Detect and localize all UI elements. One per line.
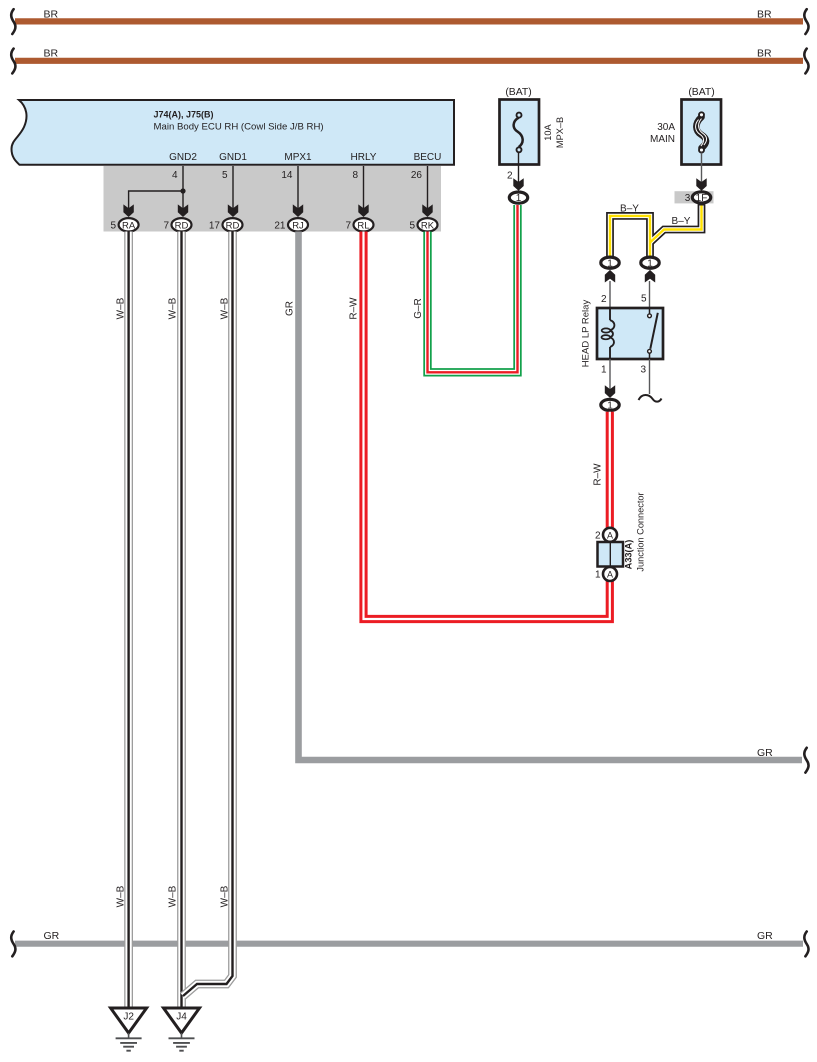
svg-text:10A: 10A xyxy=(543,123,553,140)
svg-text:HEAD LP Relay: HEAD LP Relay xyxy=(581,300,592,368)
svg-text:B–Y: B–Y xyxy=(620,203,639,214)
connector 1 (left, to relay pin 2) xyxy=(601,257,619,269)
svg-text:7: 7 xyxy=(163,220,169,231)
svg-text:MAIN: MAIN xyxy=(650,134,675,145)
svg-text:(BAT): (BAT) xyxy=(688,87,714,98)
svg-text:A33(A): A33(A) xyxy=(624,540,634,570)
wire branch to RA xyxy=(129,191,183,212)
svg-text:R–W: R–W xyxy=(349,297,360,320)
svg-text:GND1: GND1 xyxy=(219,152,247,163)
junction connector A33(A) xyxy=(595,492,646,581)
svg-text:A: A xyxy=(607,530,613,540)
connector 1 (below relay) xyxy=(601,399,619,411)
wire GR bottom (full width) xyxy=(11,930,808,956)
connector 1 (right, to relay pin 5) xyxy=(641,257,659,269)
svg-text:W–B: W–B xyxy=(168,885,179,907)
svg-text:Junction Connector: Junction Connector xyxy=(636,492,646,571)
connector RD pin 17 xyxy=(209,218,243,231)
svg-text:1: 1 xyxy=(595,570,601,581)
ground J4 xyxy=(164,1008,200,1051)
svg-text:R–W: R–W xyxy=(593,463,604,486)
svg-text:B–Y: B–Y xyxy=(672,216,691,227)
connector 1F xyxy=(692,192,710,204)
svg-text:MPX–B: MPX–B xyxy=(555,117,565,148)
svg-text:J74(A), J75(B): J74(A), J75(B) xyxy=(154,109,214,119)
wire R-W relay to A33 xyxy=(593,412,610,528)
fuse 10A MPX-B xyxy=(500,87,566,165)
wire BR top 2 xyxy=(11,48,808,74)
svg-text:RJ: RJ xyxy=(292,220,304,231)
node junction dot xyxy=(180,188,185,193)
svg-text:BECU: BECU xyxy=(414,152,442,163)
arrow into 1F xyxy=(696,178,706,191)
svg-text:MPX1: MPX1 xyxy=(284,152,312,163)
connector RA pin 5 xyxy=(110,218,138,231)
arrow up into right 1 xyxy=(645,270,655,283)
svg-text:W–B: W–B xyxy=(116,297,127,319)
arrow into 1 below relay xyxy=(605,385,615,398)
arrow into 1 xyxy=(513,178,523,191)
relay switch xyxy=(649,308,651,314)
svg-text:RA: RA xyxy=(122,220,136,231)
arrow up into left 1 xyxy=(605,270,615,283)
svg-text:3: 3 xyxy=(640,364,646,375)
svg-text:8: 8 xyxy=(352,170,358,181)
svg-text:GR: GR xyxy=(44,930,60,942)
svg-text:BR: BR xyxy=(44,48,59,60)
svg-text:5: 5 xyxy=(222,170,228,181)
wire W-B from RD to ground J4 xyxy=(177,232,186,1009)
svg-text:3: 3 xyxy=(685,193,691,204)
svg-text:G–R: G–R xyxy=(413,298,424,319)
wire GND2 drop xyxy=(182,166,184,216)
wire GND1 drop xyxy=(232,166,234,216)
svg-text:W–B: W–B xyxy=(116,885,127,907)
svg-text:2: 2 xyxy=(595,530,601,541)
svg-text:GR: GR xyxy=(757,747,773,759)
svg-text:W–B: W–B xyxy=(220,885,231,907)
svg-text:5: 5 xyxy=(110,220,116,231)
svg-text:W–B: W–B xyxy=(168,297,179,319)
wire B-Y left loop xyxy=(610,203,702,256)
svg-text:(BAT): (BAT) xyxy=(505,87,531,98)
continuation squiggle pin3 xyxy=(639,395,662,402)
svg-text:5: 5 xyxy=(641,294,647,305)
svg-text:GR: GR xyxy=(757,930,773,942)
junction block shading strip xyxy=(104,166,442,232)
svg-text:7: 7 xyxy=(345,220,351,231)
svg-text:BR: BR xyxy=(44,8,59,20)
wire G-R loop RK to fuse xyxy=(428,205,518,372)
svg-text:17: 17 xyxy=(209,220,221,231)
wire W-B from RD2 joining J4 wire xyxy=(183,232,233,997)
wire BECU drop xyxy=(427,166,429,216)
wire relay pin2 xyxy=(609,281,611,308)
svg-text:RD: RD xyxy=(175,220,189,231)
relay coil xyxy=(609,308,611,320)
svg-text:RL: RL xyxy=(357,220,369,231)
svg-text:1: 1 xyxy=(607,401,613,412)
svg-text:2: 2 xyxy=(507,171,513,182)
svg-text:J4: J4 xyxy=(176,1012,187,1023)
svg-text:21: 21 xyxy=(274,220,286,231)
wire BR top 1 xyxy=(11,8,808,34)
svg-text:GND2: GND2 xyxy=(169,152,197,163)
svg-text:RD: RD xyxy=(226,220,240,231)
wire HRLY drop xyxy=(363,166,365,216)
svg-text:1: 1 xyxy=(647,258,653,269)
wire relay pin3 xyxy=(649,359,651,394)
connector 1 (fuse 10A) xyxy=(509,192,527,204)
svg-text:1F: 1F xyxy=(696,193,708,204)
svg-text:26: 26 xyxy=(411,170,423,181)
wire fuse pin3 drop xyxy=(701,153,703,185)
wire MPX1 drop xyxy=(297,166,299,216)
svg-text:14: 14 xyxy=(281,170,293,181)
svg-text:W–B: W–B xyxy=(220,297,231,319)
arrow into RJ xyxy=(293,204,303,217)
ECU box J74(A) J75(B) xyxy=(12,100,455,165)
connector RK pin 5 xyxy=(409,218,437,231)
svg-text:HRLY: HRLY xyxy=(351,152,377,163)
arrow into RA xyxy=(123,204,133,217)
svg-text:A: A xyxy=(607,570,613,580)
svg-text:J2: J2 xyxy=(123,1012,134,1023)
svg-text:5: 5 xyxy=(409,220,415,231)
svg-text:1: 1 xyxy=(601,364,607,375)
wire GR mid (RJ to right edge) xyxy=(299,232,809,773)
connector RL pin 7 xyxy=(345,218,373,231)
ground J2 xyxy=(111,1008,147,1051)
svg-text:1: 1 xyxy=(516,193,522,204)
svg-text:30A: 30A xyxy=(657,122,675,133)
relay HEAD LP Relay xyxy=(581,300,664,368)
svg-text:1: 1 xyxy=(607,258,613,269)
arrow into RD2 xyxy=(228,204,238,217)
arrow into RL xyxy=(358,204,368,217)
svg-text:BR: BR xyxy=(757,8,772,20)
connector RD pin 7 xyxy=(163,218,191,231)
node 1F shading xyxy=(675,191,714,203)
svg-text:RK: RK xyxy=(421,220,435,231)
svg-text:4: 4 xyxy=(172,170,178,181)
svg-text:GR: GR xyxy=(285,301,296,316)
arrow into RD xyxy=(178,204,188,217)
wire relay pin5 xyxy=(649,281,651,308)
wire relay pin1 xyxy=(609,359,611,392)
svg-text:BR: BR xyxy=(757,48,772,60)
wire W-B from RA to ground J2 xyxy=(124,232,133,1009)
svg-text:Main Body ECU RH (Cowl Side J/: Main Body ECU RH (Cowl Side J/B RH) xyxy=(154,122,324,133)
wire R-W loop RL to A33 xyxy=(364,232,610,620)
fuse 30A MAIN xyxy=(650,87,721,165)
svg-text:2: 2 xyxy=(601,294,607,305)
wire fuse pin2 drop xyxy=(518,152,520,184)
connector RJ pin 21 xyxy=(274,218,308,231)
arrow into RK xyxy=(422,204,432,217)
